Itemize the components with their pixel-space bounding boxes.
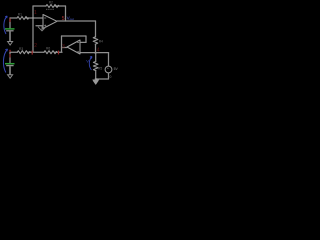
wire U2 feedback right vertical — [85, 36, 87, 42]
op-amp U1 input polarity marks — [44, 18, 46, 27]
wire feedback right vertical — [65, 6, 67, 21]
svg-text:R6: R6 — [46, 46, 50, 50]
wire left vertical from top wire to inverting input — [32, 6, 34, 18]
red pin tick V1 top — [9, 18, 11, 22]
svg-text:R3: R3 — [19, 47, 23, 51]
red pin tick rail left end — [9, 50, 11, 52]
svg-text:2: 2 — [34, 43, 37, 49]
wire right vertical to R4 — [95, 21, 97, 37]
wire source V2 top lead — [9, 52, 11, 63]
ground below U1 plus input — [38, 26, 46, 31]
wire R4 bottom lead — [95, 45, 97, 53]
resistor R4 vertical — [93, 37, 98, 44]
svg-text:R2: R2 — [49, 1, 53, 5]
wire inverting input horizontal — [10, 17, 43, 19]
wire R5 top lead — [95, 53, 97, 62]
red pin tick rail right of R6 — [58, 51, 60, 55]
wire bottom rail — [10, 51, 62, 53]
svg-text:+: + — [107, 66, 109, 70]
svg-text:R5: R5 — [98, 67, 102, 71]
resistor R1 — [17, 17, 29, 20]
svg-text:V: V — [86, 59, 89, 64]
node junction dot at ground tee — [95, 78, 97, 80]
resistor R6 — [44, 51, 57, 54]
source V2 arrow head — [8, 75, 13, 78]
resistor R3 — [17, 51, 30, 54]
svg-text:5V: 5V — [114, 67, 119, 71]
node junction dot R4 bottom — [94, 52, 96, 54]
svg-text:R4: R4 — [99, 40, 103, 44]
source V2 negative plate — [6, 65, 13, 67]
wire middle vertical inverting node to rail — [32, 18, 34, 52]
op-amp U2 input polarity marks — [77, 42, 79, 52]
waveform squiggle blue V1 — [4, 16, 7, 34]
op-amp U1 noninverting input stub — [36, 25, 43, 27]
op-amp U2 — [67, 40, 80, 54]
waveform squiggle blue V2 — [3, 49, 7, 73]
ground symbol bottom right — [93, 80, 99, 84]
svg-text:1: 1 — [34, 10, 37, 16]
op-amp U1 part label dots — [46, 9, 53, 10]
resistor R2 — [46, 5, 59, 8]
wire R5 bottom lead — [95, 72, 97, 80]
wire U1 output horizontal — [57, 20, 96, 22]
wire vertical into source V3 — [108, 53, 110, 66]
source V1 arrow shaft — [9, 32, 11, 42]
wire U2 feedback left vertical — [61, 36, 63, 52]
source V2 arrow shaft — [9, 66, 11, 75]
wire top feedback horizontal — [33, 5, 66, 7]
wire U2 output stub — [62, 47, 68, 49]
wire mid horizontal from op2 to source corner — [80, 52, 109, 54]
source V1 negative plate — [6, 30, 13, 32]
red pin tick rail mid junction — [31, 51, 33, 55]
svg-text:Vout: Vout — [67, 16, 74, 22]
svg-text:0: 0 — [110, 75, 112, 79]
svg-text:5: 5 — [62, 16, 65, 22]
svg-text:R1: R1 — [18, 13, 22, 17]
red pin tick V2 top — [9, 54, 11, 58]
resistor R5 vertical — [93, 62, 98, 71]
wire source V1 top lead — [9, 18, 11, 28]
svg-text:4: 4 — [97, 47, 100, 53]
node junction dot at inverting input — [32, 17, 34, 19]
op-amp U2 top input stub — [80, 41, 86, 43]
wire source V3 bottom lead — [96, 73, 109, 79]
source V1 arrow head — [8, 42, 13, 46]
svg-text:3: 3 — [62, 44, 65, 50]
source V1 positive plate (green) — [5, 28, 15, 30]
voltage source V3 circle — [105, 66, 112, 73]
source V2 positive plate (green) — [5, 63, 15, 65]
wire U2 feedback top horizontal — [62, 35, 87, 37]
op-amp U1 — [43, 15, 57, 29]
waveform squiggle blue R5 — [89, 57, 92, 71]
